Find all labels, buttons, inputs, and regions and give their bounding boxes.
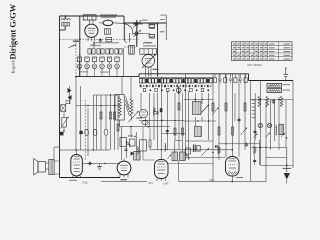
label ECH21 — [73, 41, 79, 42]
wire col 106 — [105, 95, 107, 150]
tube V3s small — [139, 109, 147, 117]
capacitor C18 — [166, 129, 169, 134]
wire jack drop — [285, 76, 287, 81]
resistor R1b — [149, 34, 155, 38]
wire left drop a — [75, 76, 77, 150]
padder row — [88, 49, 122, 54]
label C66 — [209, 178, 214, 182]
label RiP 230k — [247, 63, 262, 67]
capacitor C30 — [272, 99, 275, 104]
resistor R30 zig — [153, 107, 155, 114]
svg-text:Kapsch: Kapsch — [11, 59, 16, 73]
wire col 239 — [238, 74, 240, 157]
IF coil T3top — [134, 152, 140, 161]
resistor R10 — [114, 112, 116, 119]
capacitor C5 — [99, 38, 102, 42]
wire dashed AGC — [60, 38, 139, 40]
wire right cross4 — [266, 157, 287, 159]
wire col 286 — [286, 100, 288, 148]
resistor R13 — [174, 128, 176, 135]
antenna coil L1 — [61, 19, 70, 26]
trimmer box B3 — [106, 37, 112, 41]
IF coil bottom — [195, 127, 202, 137]
label 29k — [160, 31, 165, 32]
wire col 254.7 — [254, 140, 256, 165]
label FM text line2 — [101, 16, 116, 19]
wire col 266 — [265, 100, 267, 182]
wave switch S1 bank A — [139, 78, 212, 87]
resistor R9 — [117, 124, 119, 131]
tube V2 osc — [142, 54, 155, 67]
wire cross 121r — [184, 120, 216, 121]
capacitor C20 — [87, 162, 92, 165]
wave switch S1 bank C — [143, 87, 209, 94]
wire col 154 — [153, 93, 155, 140]
wire col 293 — [292, 81, 294, 169]
small circle sw — [215, 145, 218, 148]
resistor R27 zig — [280, 96, 283, 107]
capacitor C33 — [160, 108, 163, 112]
wire col 149.5 — [149, 93, 151, 127]
volume pot P1 — [61, 117, 69, 129]
wire cross 126.6 — [120, 126, 170, 128]
wire speaker links — [54, 161, 59, 174]
wire col 208.6 — [208, 93, 210, 140]
diode D1 — [154, 111, 159, 116]
capacitor C11 — [60, 132, 64, 136]
box R21 — [186, 148, 191, 154]
capacitor C31 — [254, 129, 257, 134]
mains dropper Rd2 — [267, 89, 282, 93]
trimmer row — [77, 64, 119, 77]
wire V2 pins — [146, 66, 152, 76]
band box B4 — [129, 46, 134, 55]
zigzag R20 — [218, 146, 221, 154]
tube V4 AF — [155, 150, 169, 181]
electrolytic C15 — [104, 129, 108, 135]
wire cross 150 — [60, 149, 111, 150]
wire col 188.5 — [188, 91, 190, 160]
FM filter oval — [99, 20, 115, 26]
tube V5 output — [71, 150, 83, 178]
switch arrow — [69, 44, 76, 48]
capacitor C37 — [125, 149, 128, 150]
wire cross 133.5 — [162, 133, 186, 134]
wire mid-bottom bus — [150, 149, 233, 151]
ladder bank — [252, 100, 256, 118]
electrolytic C14 — [93, 129, 97, 135]
electrolytic C13 — [85, 129, 89, 135]
wire col 202 — [201, 93, 203, 121]
resistor R31 — [178, 103, 180, 110]
speaker LS — [34, 159, 46, 176]
mains transformer Tr1 — [275, 124, 283, 135]
IF can B6 — [140, 140, 147, 151]
crossed box B5 — [61, 105, 66, 112]
wire V1 grid riser — [79, 15, 81, 76]
wire col 255.2 — [254, 93, 256, 140]
wire col 145.5 — [145, 118, 147, 127]
resistor R11 zig — [118, 97, 121, 118]
wire oval to gang — [115, 23, 133, 35]
label C61 — [148, 181, 153, 185]
gang rail — [136, 20, 138, 47]
wire mid bus left — [76, 74, 139, 77]
pot arrow P2 — [129, 111, 139, 122]
variable capacitor C1b — [133, 30, 143, 37]
label 110V — [283, 89, 291, 92]
oval C17 — [142, 121, 148, 125]
wire anode row — [82, 163, 120, 164]
wave switch S1 bank B — [213, 74, 247, 84]
oscillator coil L3 — [140, 42, 157, 54]
wire cross 141 — [186, 140, 214, 142]
tube V1 mixer — [85, 20, 98, 37]
wire col 260.5 — [260, 81, 262, 166]
wire col 161.5 — [161, 77, 163, 150]
wire col 114.5 — [114, 95, 116, 150]
resistor R16 — [218, 127, 220, 135]
capacitor C41 — [245, 142, 248, 147]
wire col 146b — [143, 127, 155, 160]
capacitor C35 — [253, 158, 256, 163]
wire col 255 — [254, 100, 256, 141]
svg-text:L47: L47 — [164, 182, 169, 186]
coil pack row — [77, 57, 119, 64]
wire col 226 — [225, 74, 227, 157]
label row text b — [100, 71, 110, 74]
tuning arrow V2 — [142, 55, 156, 69]
wire col 250.5 — [250, 81, 252, 182]
IF transformer T2 frame — [115, 95, 124, 121]
wire gang right — [160, 15, 166, 40]
relay box Bb — [130, 139, 136, 146]
relay box Ba — [120, 138, 127, 147]
zigzag R34 — [253, 146, 256, 154]
dots cluster — [128, 135, 135, 137]
wire bottom left bus — [60, 177, 121, 179]
wire col 185.5 — [185, 74, 187, 160]
wire Tr3 bottom — [178, 161, 180, 182]
wire mid bus far right — [249, 74, 294, 81]
wire gang mid — [143, 22, 159, 76]
wire col 136.7 — [136, 132, 138, 160]
wire col 182.6 — [182, 93, 184, 140]
capacitor C12 — [79, 131, 82, 134]
svg-text:C66: C66 — [209, 178, 214, 182]
resistor R17 — [225, 103, 227, 111]
pot arrow P6 — [241, 128, 248, 136]
wire dashed gang link — [84, 100, 86, 160]
Tr3 arrows — [168, 155, 190, 160]
resistor R8 — [110, 112, 112, 119]
wire col 270.5 — [270, 100, 272, 151]
wire cross 95 — [94, 94, 121, 95]
wire V6 out — [232, 176, 234, 182]
wire left frame — [59, 16, 61, 178]
diode block D2 — [66, 86, 72, 104]
capacitor C22 — [238, 117, 241, 122]
wire cross 143.8 — [219, 143, 259, 144]
wire gang left drop — [124, 23, 129, 42]
wire col 141 — [140, 93, 142, 110]
wire col 219 — [218, 74, 220, 160]
wire col 259.4 — [258, 140, 260, 165]
wire cross 157.3 — [186, 156, 226, 158]
wire V1 pins — [88, 37, 95, 41]
wire antenna leads — [60, 16, 66, 30]
zigzag R33 — [126, 142, 131, 147]
title Kapsch — [11, 59, 16, 73]
wire Tr3 tops — [175, 141, 183, 153]
tube V3 demod — [117, 159, 131, 178]
wire col 157.6 — [157, 93, 159, 150]
label Drehko — [143, 45, 156, 46]
wire left drop a dashed — [75, 39, 77, 76]
svg-text:F12: F12 — [83, 180, 89, 184]
pickup jack J1 — [283, 67, 288, 76]
dial lamp La1 — [258, 123, 262, 127]
interstage transformer Tr3 — [172, 152, 185, 161]
wire V1 cathode riser — [93, 41, 94, 48]
svg-text:Dirigent G/GW: Dirigent G/GW — [9, 3, 18, 59]
variable capacitor C1a — [133, 20, 148, 28]
pot arrow P5 — [212, 108, 219, 116]
wire col 118 — [117, 95, 119, 150]
pot arrow P3 — [202, 105, 210, 113]
wire gang feed — [123, 48, 125, 77]
resistor R14 — [149, 140, 151, 147]
resistor R25 zig — [266, 96, 269, 107]
wire right cross — [251, 99, 294, 100]
output transformer Tr2 — [46, 160, 55, 175]
wire heater link — [168, 162, 213, 164]
wire right cross3 — [261, 164, 294, 166]
svg-text:C61: C61 — [148, 181, 153, 185]
dial lamp La2 — [267, 123, 271, 127]
label 108 — [69, 180, 77, 181]
IF transformer T4 — [193, 102, 202, 115]
wire col 279 — [278, 97, 280, 150]
label F83 — [120, 179, 127, 180]
bandfilter box B1 — [83, 15, 96, 20]
wire left drop b — [80, 86, 82, 150]
wire col 131 — [130, 77, 133, 137]
wire cross 120.4 — [139, 120, 184, 122]
wire speaker feed — [54, 147, 60, 161]
valve table grid — [232, 42, 293, 61]
wire col 150b — [149, 127, 151, 150]
pot arrow P4 — [201, 148, 209, 156]
wire col 213 — [212, 74, 214, 182]
wire det row — [101, 181, 147, 183]
resistor R23 zig — [258, 96, 261, 107]
earth E1 — [283, 148, 292, 184]
diode D3 — [131, 151, 134, 155]
ground G1 — [97, 164, 102, 170]
wire cross 105.5 — [76, 105, 120, 106]
label ECH21b — [153, 69, 159, 70]
wire mid bus right — [139, 73, 249, 75]
wire col 126.3b — [125, 140, 127, 158]
wire col 195.4 — [194, 93, 196, 127]
resistor R32 — [182, 128, 184, 135]
label micro row b — [92, 44, 101, 47]
label FM text line1 — [100, 13, 117, 16]
wire det row2 — [179, 181, 266, 183]
wire col 274.5 — [274, 100, 276, 142]
wire col 179 — [178, 91, 180, 150]
wire col 232.5 — [232, 74, 234, 150]
wire col 235 — [234, 93, 236, 121]
resistor R12 zig — [130, 98, 133, 116]
IF transformer T2 core — [126, 97, 130, 117]
wire pot leads — [63, 112, 65, 132]
wire col 93.5 — [93, 95, 95, 150]
node n2 — [212, 146, 216, 154]
label row text a — [80, 70, 88, 73]
label padder text — [90, 44, 95, 47]
resistor R1a — [149, 25, 155, 29]
label EBF11 — [137, 117, 143, 120]
wire right cross2 — [251, 147, 288, 148]
wire col 245 — [244, 74, 246, 150]
title Dirigent G/GW — [9, 3, 18, 59]
resistor R15 — [212, 103, 214, 111]
node antenna junction — [65, 15, 66, 16]
label V6 — [236, 177, 243, 178]
tube V6 rectifier — [226, 150, 240, 176]
wire col 122 — [120, 77, 122, 160]
label 220V — [283, 83, 291, 86]
zigzag R35 — [137, 146, 139, 155]
svg-text:RiP 230kΩ: RiP 230kΩ — [247, 63, 262, 67]
wire switch rail — [139, 77, 213, 79]
wire gang bus — [124, 16, 166, 23]
resistor R18 — [232, 127, 234, 135]
wire col 175 — [174, 93, 176, 140]
wire cross 99.5 — [184, 99, 213, 100]
wire col 167.3 — [166, 91, 168, 150]
coil L6 — [165, 144, 166, 152]
wire col 110.5 — [110, 95, 112, 150]
valve table entries — [233, 44, 290, 60]
wire dashed drive link — [124, 46, 137, 48]
switch arrows k — [254, 133, 286, 139]
resistor R19 — [244, 103, 246, 111]
wire col 88 — [87, 108, 89, 156]
resistor R7 — [100, 112, 102, 119]
wire col 96.5 — [96, 95, 98, 150]
wire top bus — [60, 15, 125, 17]
label micro row a — [93, 41, 119, 44]
capacitor pair C40 — [193, 145, 200, 153]
wire col 101 — [100, 95, 102, 150]
label L47 — [164, 182, 169, 186]
mains dropper Rd1 — [267, 83, 282, 87]
label F12 — [83, 180, 89, 184]
node earth join — [286, 165, 288, 167]
IF can B2 — [105, 29, 111, 34]
